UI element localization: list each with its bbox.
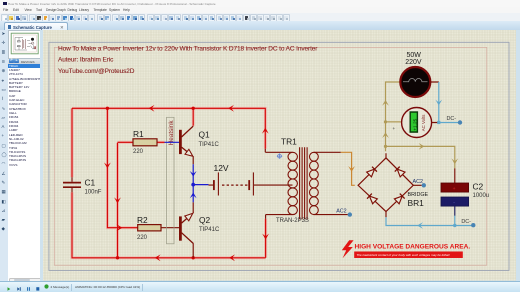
terminal AC2 right <box>412 179 425 187</box>
svg-text:AC2: AC2 <box>336 209 346 215</box>
resistor R2 <box>137 215 161 241</box>
svg-text:TR1: TR1 <box>281 137 297 147</box>
light blue DC- net top <box>435 82 462 125</box>
junction bottom A <box>116 256 119 259</box>
sheet outer border <box>49 42 509 270</box>
C1 capacitor <box>63 178 102 196</box>
svg-text:+1.25: +1.25 <box>412 119 418 131</box>
svg-text:BR1: BR1 <box>407 198 424 208</box>
warning label <box>342 240 471 258</box>
title text block <box>58 46 318 75</box>
heatsink <box>167 117 175 243</box>
dark red pin wires <box>72 82 455 258</box>
resistor R1 <box>133 129 157 155</box>
origin marker <box>277 154 282 159</box>
svg-text:DC-: DC- <box>461 219 471 225</box>
svg-text:BRIDGE: BRIDGE <box>407 192 428 198</box>
lamp 50W 220V <box>400 52 430 97</box>
svg-text:+: + <box>392 126 395 131</box>
light blue DC- net bottom <box>386 216 475 229</box>
svg-text:220: 220 <box>137 235 148 241</box>
wire red net glow <box>72 108 266 257</box>
blue base/emitter net <box>165 142 209 202</box>
svg-text:220V: 220V <box>405 59 422 66</box>
svg-text:Q1: Q1 <box>199 130 211 140</box>
svg-text:12V: 12V <box>214 163 229 173</box>
junction top A <box>106 107 109 110</box>
blue flow arrows <box>190 171 197 198</box>
capacitor C2 <box>441 182 489 216</box>
svg-text:C2: C2 <box>472 182 483 192</box>
svg-text:TIP41C: TIP41C <box>199 142 220 148</box>
svg-text:100nF: 100nF <box>85 190 102 196</box>
svg-text:Q2: Q2 <box>199 215 211 225</box>
svg-text:220: 220 <box>133 149 144 155</box>
svg-text:1000u: 1000u <box>472 193 489 199</box>
svg-text:How To Make a Power Inverter 1: How To Make a Power Inverter 12v to 220v… <box>58 46 318 53</box>
svg-text:AC Volts: AC Volts <box>421 114 426 132</box>
svg-text:AC2: AC2 <box>412 179 422 185</box>
orange secondary wire <box>341 152 355 185</box>
svg-text:C1: C1 <box>85 178 96 188</box>
transistor Q2 <box>179 213 220 243</box>
sheet inner border <box>54 48 486 266</box>
transformer TR1 <box>276 137 318 225</box>
wire red net <box>72 108 266 257</box>
battery 12V <box>214 163 254 195</box>
svg-text:YouTube.com/@Proteus2D: YouTube.com/@Proteus2D <box>58 68 135 75</box>
tan DC+ net <box>382 82 458 168</box>
svg-text:The inadvertent contact of you: The inadvertent contact of your body wit… <box>356 253 449 257</box>
svg-text:R1: R1 <box>133 129 144 139</box>
junction bottom B <box>192 256 195 259</box>
svg-text:Heatsink: Heatsink <box>168 120 175 146</box>
terminal AC2 left <box>336 209 352 217</box>
AC voltmeter <box>402 108 432 138</box>
junction top B <box>192 107 195 110</box>
transistor Q1 <box>179 126 219 156</box>
svg-text:Auteur: Ibrahim Eric: Auteur: Ibrahim Eric <box>58 57 114 64</box>
node battery-left junction <box>191 183 195 187</box>
svg-text:+: + <box>453 186 456 192</box>
svg-text:R2: R2 <box>137 215 148 225</box>
svg-text:DC-: DC- <box>446 116 456 122</box>
red flow arrows <box>104 105 269 261</box>
svg-text:HIGH VOLTAGE DANGEROUS AREA.: HIGH VOLTAGE DANGEROUS AREA. <box>354 244 470 251</box>
bridge BR1 <box>358 158 428 212</box>
svg-text:TRAN-2P3S: TRAN-2P3S <box>276 218 309 224</box>
svg-text:TIP41C: TIP41C <box>199 227 220 233</box>
